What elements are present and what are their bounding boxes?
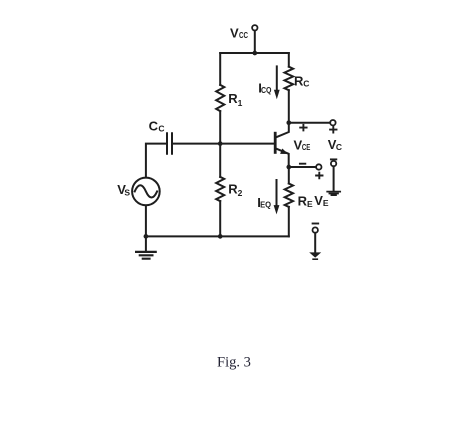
svg-text:CC: CC [239, 31, 248, 40]
current arrow IEQ [274, 180, 280, 214]
plus sign below VE terminal [316, 173, 322, 179]
wire VC terminal to ground [333, 166, 335, 190]
svg-text:V: V [314, 193, 323, 208]
capacitor CC plates [167, 133, 172, 154]
junction bottom rail left [144, 234, 149, 239]
transistor Q1 collector lead [276, 123, 289, 138]
minus sign at emitter [300, 163, 305, 165]
label R1 [228, 91, 242, 108]
ground main [136, 252, 156, 259]
wire bottom rail [146, 235, 289, 237]
svg-text:CQ: CQ [261, 86, 272, 95]
wire R2 to bottom rail [219, 201, 221, 236]
source VS (sine circle) [132, 178, 160, 206]
junction emitter node [286, 165, 291, 170]
wire emitter to VE terminal [289, 166, 316, 168]
wire base from capacitor [173, 143, 274, 145]
terminal VCC (open circle) [252, 25, 257, 30]
svg-text:E: E [307, 199, 313, 209]
svg-text:C: C [303, 78, 309, 88]
label VCE [294, 137, 311, 152]
wire VCC stub [254, 31, 256, 53]
wire emitter to RE [288, 167, 290, 184]
resistor R1 [216, 85, 224, 111]
wire collector to VC terminal [289, 122, 330, 124]
junction base node [218, 141, 223, 146]
svg-text:S: S [124, 187, 130, 197]
wire top rail [220, 52, 289, 54]
wire R1 to base node [219, 111, 221, 177]
junction top rail [252, 51, 257, 56]
wire VS top corner to capacitor [146, 144, 167, 178]
label R2 [228, 182, 242, 199]
label VCC [230, 25, 248, 40]
svg-text:EQ: EQ [260, 201, 271, 210]
caption Fig. 3 [217, 354, 251, 370]
wire VS bottom to rail [145, 206, 147, 237]
label RE [298, 193, 313, 209]
wire RC to collector [288, 90, 290, 123]
wire right branch upper [288, 53, 290, 67]
terminal VE (open circle) [316, 164, 321, 169]
label IEQ [257, 195, 271, 210]
label VC [328, 137, 342, 152]
resistor RE [285, 184, 293, 207]
wire to main ground [145, 236, 147, 251]
plus sign below VC terminal [330, 127, 336, 133]
junction bottom rail mid [218, 234, 223, 239]
junction collector node [286, 120, 291, 125]
transistor Q1 emitter lead with arrow [276, 148, 289, 167]
resistor RC [285, 67, 294, 91]
svg-text:1: 1 [238, 98, 243, 108]
svg-text:C: C [336, 142, 342, 152]
label CC (coupling capacitor) [149, 119, 165, 134]
svg-text:C: C [158, 124, 164, 134]
label ICQ [258, 81, 271, 96]
wire VE terminal to ground [314, 233, 316, 253]
current arrow ICQ [274, 66, 280, 99]
plus sign at collector [300, 125, 306, 131]
minus sign above VE ground terminal [313, 223, 319, 225]
svg-text:C: C [149, 119, 159, 134]
transistor Q1 base bar [274, 133, 277, 152]
svg-text:Fig. 3: Fig. 3 [217, 354, 251, 370]
svg-text:2: 2 [238, 188, 243, 198]
ground VE reference [309, 252, 321, 259]
terminal VC ground reference (open circle) [331, 161, 336, 166]
ground VC reference [327, 192, 340, 196]
terminal VC (open circle) [330, 120, 335, 125]
wire left branch upper [219, 53, 221, 85]
terminal VE ground reference (open circle) [313, 227, 318, 232]
minus sign above VC ground terminal [331, 158, 336, 160]
label RC [294, 73, 309, 88]
label VS [117, 182, 130, 198]
svg-text:V: V [230, 25, 239, 40]
resistor R2 [216, 177, 224, 201]
svg-text:CE: CE [302, 143, 311, 152]
label VE [314, 193, 329, 208]
wire RE to bottom rail [288, 207, 290, 237]
svg-text:E: E [323, 198, 329, 208]
